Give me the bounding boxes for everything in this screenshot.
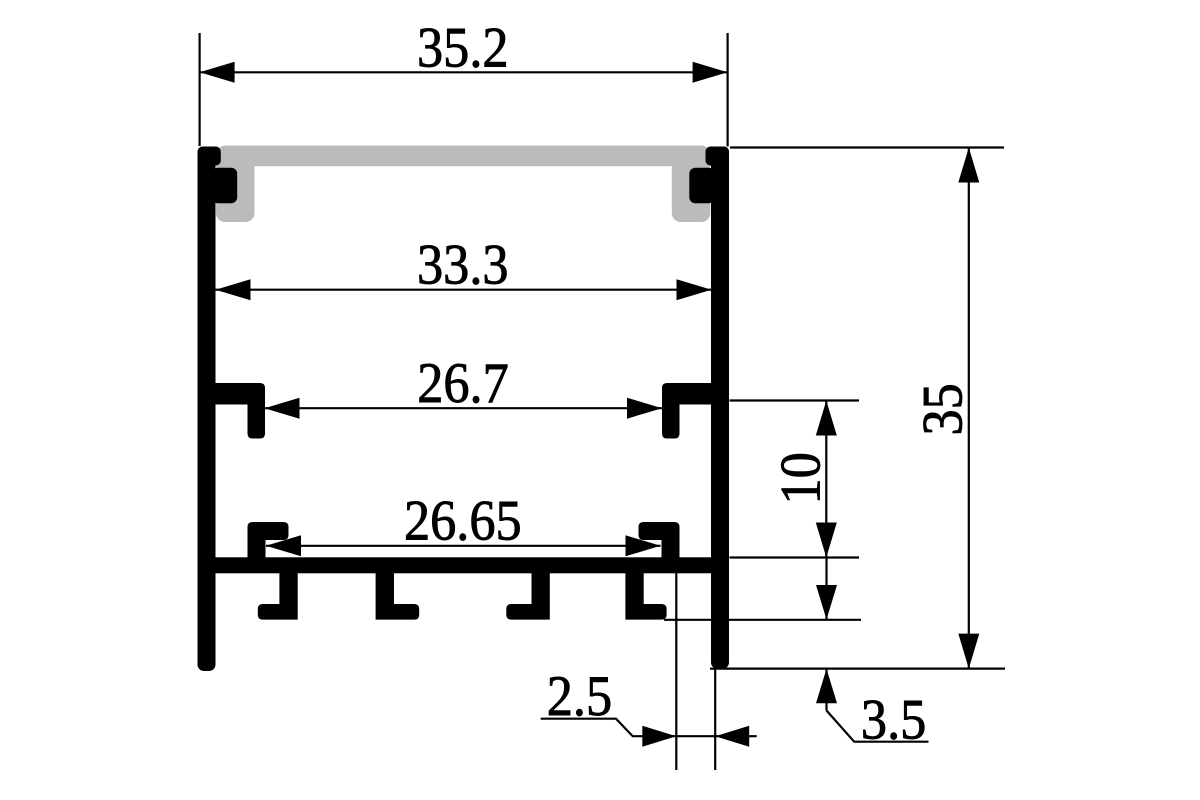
svg-text:35.2: 35.2 (417, 15, 509, 79)
svg-text:26.7: 26.7 (417, 351, 509, 415)
svg-text:3.5: 3.5 (861, 687, 926, 751)
svg-text:2.5: 2.5 (547, 664, 612, 728)
svg-text:33.3: 33.3 (417, 232, 509, 296)
svg-text:35: 35 (910, 383, 974, 435)
svg-text:26.65: 26.65 (404, 488, 522, 552)
svg-text:10: 10 (768, 452, 832, 504)
